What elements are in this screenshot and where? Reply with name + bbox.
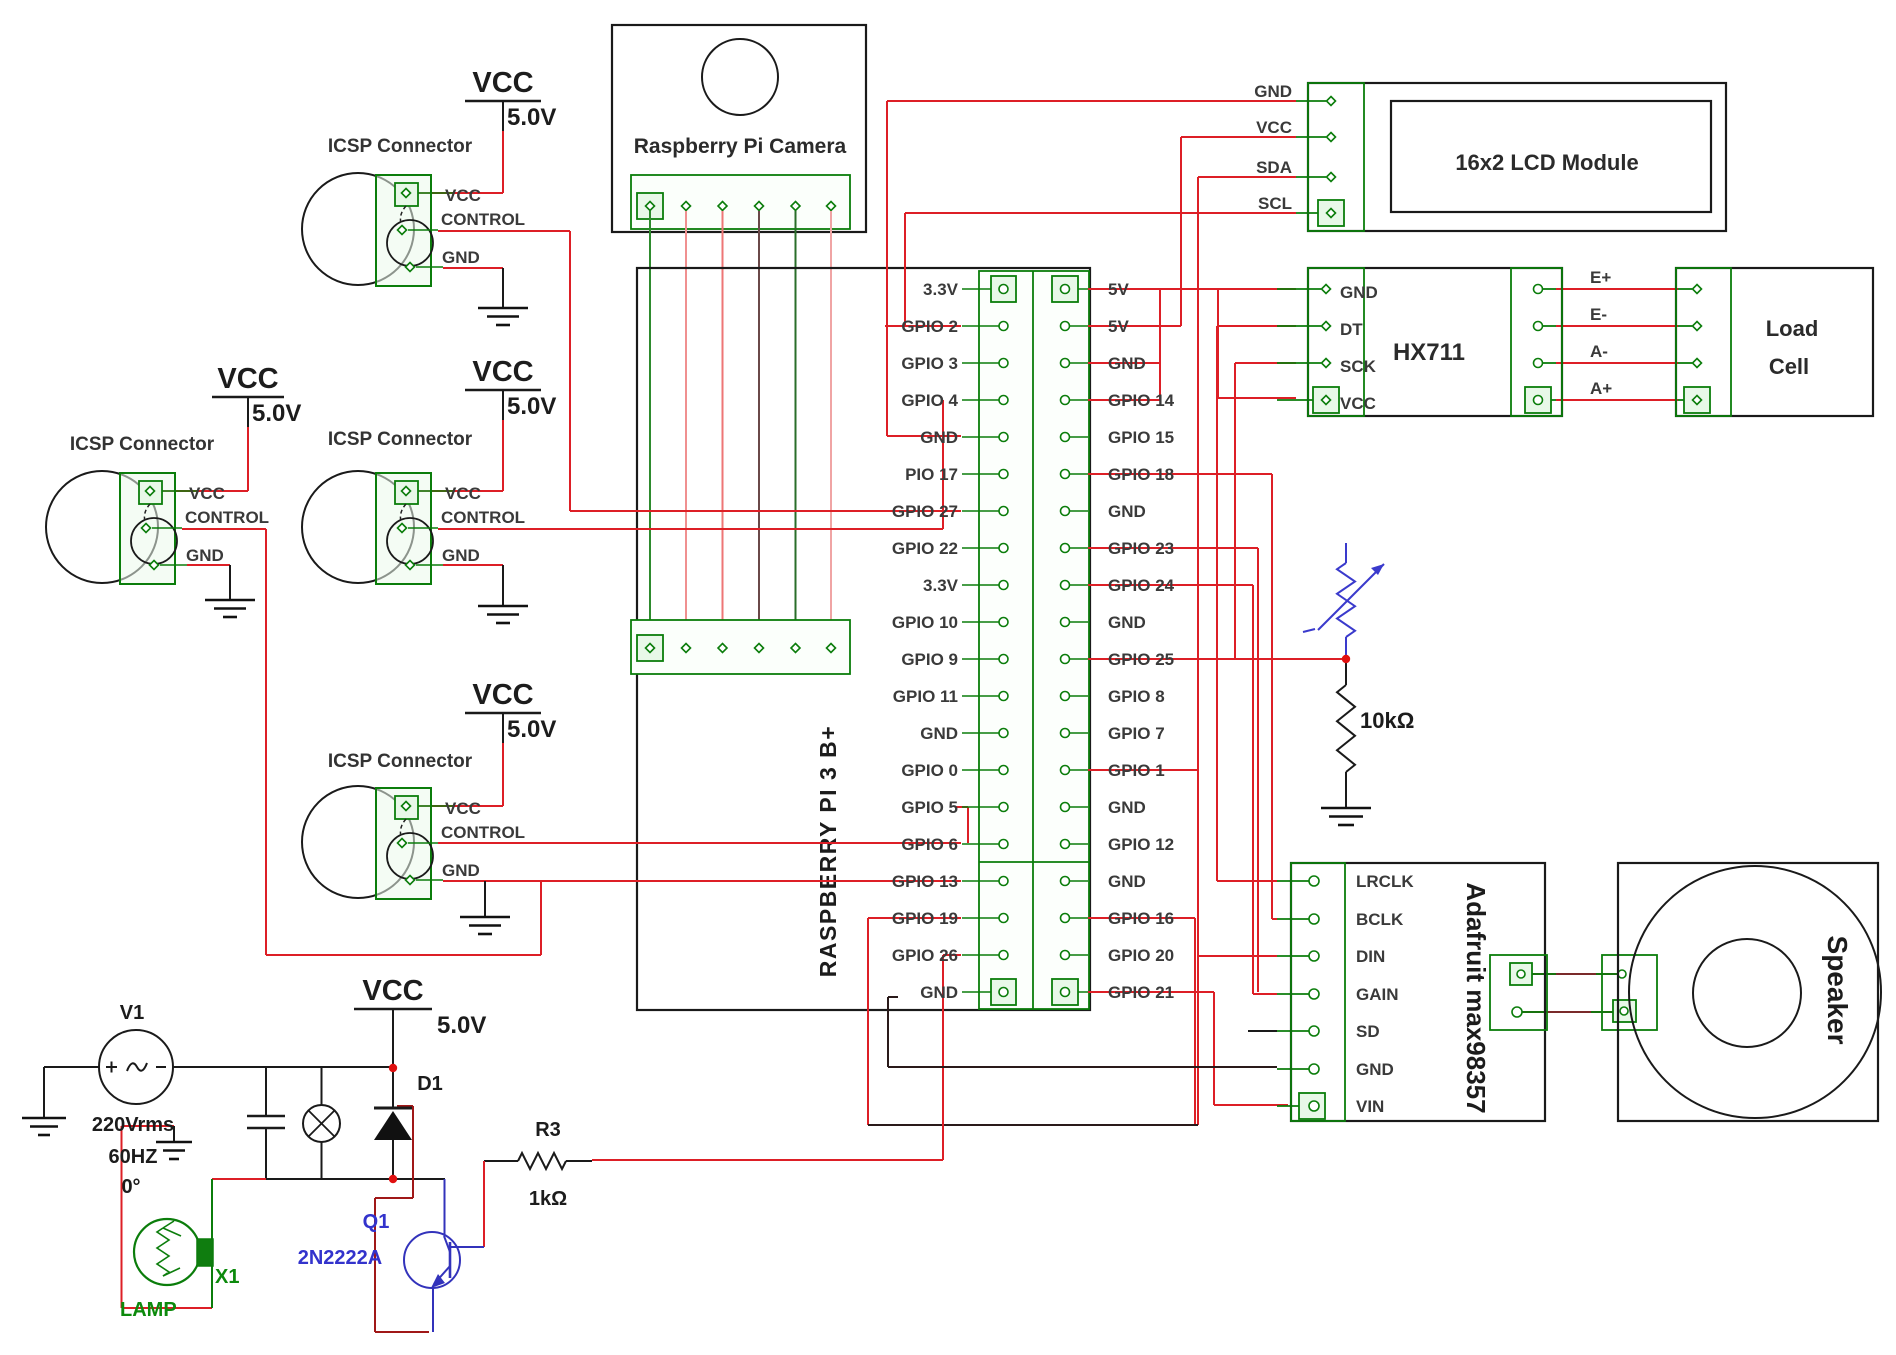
amp out+ wire (1532, 973, 1618, 975)
svg-text:GPIO 18: GPIO 18 (1108, 465, 1174, 484)
svg-text:BCLK: BCLK (1356, 910, 1404, 929)
servo2 VCC wire (502, 131, 504, 193)
LCD pin SDA (1327, 173, 1336, 182)
Load Cell body (1676, 268, 1873, 416)
HX711 right pin E- (1534, 322, 1543, 331)
amp SD stub (1248, 1030, 1277, 1032)
wire GPIO 2 row (885, 325, 961, 327)
HX711 pin stub y363 (1277, 362, 1321, 364)
GPIO header left stub row 4 (962, 399, 999, 401)
wire LCD SDA (1198, 176, 1296, 178)
LCD pin SCL (1327, 209, 1336, 218)
svg-text:VCC: VCC (472, 356, 533, 388)
svg-text:SD: SD (1356, 1022, 1380, 1041)
LCD connector strip (1308, 83, 1364, 231)
svg-text:5.0V: 5.0V (507, 393, 556, 420)
ground lamp (173, 1126, 175, 1141)
wire HX711 E- to load cell (1556, 325, 1678, 327)
16x2 LCD module body (1308, 83, 1726, 231)
speaker connector pin - circle (1620, 1007, 1628, 1015)
HX711 pin DT (1322, 322, 1331, 331)
relay coil (303, 1105, 340, 1142)
camera ribbon wire 4 (758, 211, 760, 643)
svg-text:ICSP Connector: ICSP Connector (328, 136, 473, 157)
speaker cone outer circle (1629, 866, 1881, 1118)
wire HX711 E+ to load cell (1556, 288, 1678, 290)
amp output pin + circle (1517, 970, 1525, 978)
svg-text:ICSP Connector: ICSP Connector (328, 751, 473, 772)
GPIO left pin row 19 (999, 951, 1008, 960)
svg-text:GND: GND (920, 428, 958, 447)
svg-text:V1: V1 (120, 1002, 144, 1024)
svg-text:5.0V: 5.0V (507, 104, 556, 131)
relay contact plates (247, 1115, 285, 1118)
amp pin stub y1031 (1277, 1030, 1309, 1032)
svg-text:SDA: SDA (1256, 158, 1292, 177)
GPIO pin40 square (1052, 979, 1078, 1005)
GPIO left pin row 8 (999, 544, 1008, 553)
svg-text:GND: GND (1108, 613, 1146, 632)
camera strip pin 3 (718, 202, 727, 211)
svg-text:D1: D1 (417, 1073, 443, 1095)
servo4 GND wire (443, 880, 541, 882)
svg-text:3.3V: 3.3V (923, 576, 959, 595)
amp pin DIN (1309, 951, 1319, 961)
GPIO left pin row 5 (999, 433, 1008, 442)
svg-text:1kΩ: 1kΩ (529, 1188, 567, 1210)
GPIO header right stub row 13 (1070, 732, 1088, 734)
LCD pin stub y213 (1296, 212, 1326, 214)
GPIO left pin row 15 (999, 803, 1008, 812)
GPIO left pin row 17 (999, 877, 1008, 886)
svg-text:ICSP Connector: ICSP Connector (70, 434, 215, 455)
GPIO right pin row 16 (1061, 840, 1070, 849)
E- stubs (1543, 325, 1556, 327)
wire V1 right to node (173, 1066, 393, 1068)
wire GPIO 26 to R3 (943, 954, 961, 956)
svg-text:E+: E+ (1590, 268, 1611, 287)
amp pin stub y956 (1277, 955, 1309, 957)
speaker connector pin + (1618, 970, 1626, 978)
wire DIN tap (1198, 955, 1277, 957)
svg-text:Raspberry Pi Camera: Raspberry Pi Camera (634, 135, 847, 158)
LCD pin VCC (1327, 133, 1336, 142)
amp out stubs (1532, 973, 1556, 975)
ground servo1 (229, 565, 231, 599)
GPIO left pin row 20 (999, 988, 1008, 997)
GPIO left pin row 2 (999, 322, 1008, 331)
wire GPIO 5 jog (955, 806, 968, 808)
E+ stubs (1543, 288, 1556, 290)
wire Pi GND to amp GND (888, 996, 898, 998)
svg-text:CONTROL: CONTROL (441, 823, 525, 842)
GPIO left pin row 10 (999, 618, 1008, 627)
HX711 VCC pin square (1313, 387, 1339, 413)
wire GPIO 27 to servo2 control (570, 510, 961, 512)
svg-text:VCC: VCC (445, 799, 481, 818)
servo3 VCC wire (502, 420, 504, 491)
camera strip pin 6 (827, 202, 836, 211)
camera ribbon wire 1 (649, 211, 651, 643)
svg-text:GPIO 0: GPIO 0 (901, 761, 958, 780)
svg-text:GND: GND (1254, 82, 1292, 101)
svg-text:GPIO 22: GPIO 22 (892, 539, 958, 558)
LCD pin stub y137 (1296, 136, 1326, 138)
svg-text:GPIO 25: GPIO 25 (1108, 650, 1174, 669)
svg-text:5.0V: 5.0V (252, 400, 301, 427)
GPIO right pin row 18 (1061, 914, 1070, 923)
svg-text:VCC: VCC (445, 186, 481, 205)
svg-text:R3: R3 (535, 1119, 561, 1141)
svg-text:2N2222A: 2N2222A (298, 1247, 383, 1269)
amp strip (1291, 863, 1345, 1121)
A+ stubs (1543, 399, 1556, 401)
wire VCC rail to node (392, 1009, 394, 1064)
svg-text:VCC: VCC (1256, 118, 1292, 137)
svg-text:GPIO 12: GPIO 12 (1108, 835, 1174, 854)
wire GPIO 19 net (868, 917, 961, 919)
svg-text:GPIO 9: GPIO 9 (901, 650, 958, 669)
svg-text:A-: A- (1590, 342, 1608, 361)
GPIO right pin row 13 (1061, 729, 1070, 738)
GPIO header divider (1032, 271, 1034, 1009)
camera strip pin 4 (755, 202, 764, 211)
svg-text:LRCLK: LRCLK (1356, 872, 1414, 891)
GPIO left pin row 11 (999, 655, 1008, 664)
GPIO header left stub row 3 (962, 362, 999, 364)
svg-text:Cell: Cell (1769, 354, 1809, 379)
Load Cell pin A+ (1693, 396, 1702, 405)
svg-text:VIN: VIN (1356, 1097, 1384, 1116)
Adafruit max98357 body (1291, 863, 1545, 1121)
Pi CSI strip pin 3 (718, 644, 727, 653)
LCD pin GND (1327, 97, 1336, 106)
svg-text:GND: GND (1108, 798, 1146, 817)
GPIO header right stub row 16 (1070, 843, 1088, 845)
wire emitter return path (397, 1105, 413, 1107)
V1 sine symbol (127, 1063, 147, 1071)
wire HX711 A+ to load cell (1556, 399, 1678, 401)
Load Cell A+ pin square (1684, 387, 1710, 413)
photoresistor (LDR) (1337, 563, 1355, 637)
V1 minus sign (156, 1066, 166, 1068)
svg-text:GPIO 3: GPIO 3 (901, 354, 958, 373)
speaker connector pin - square (1613, 1000, 1636, 1022)
wire V1 to relay and VCC node (44, 1066, 99, 1068)
LCD SCL pin square (1318, 200, 1344, 226)
Raspberry Pi Camera module body (612, 25, 866, 232)
GPIO right pin row 12 (1061, 692, 1070, 701)
Pi CSI strip pin 1 (646, 644, 655, 653)
lamp right terminal leads (211, 1179, 213, 1239)
LDR bottom lead (1345, 637, 1347, 659)
HX711 pin stub y289 (1277, 288, 1321, 290)
GPIO left pin row 3 (999, 359, 1008, 368)
wire HX711 A- to load cell (1556, 362, 1678, 364)
GPIO right pin row 14 (1061, 766, 1070, 775)
node VCC-relay junction (389, 1064, 397, 1072)
Pi CSI strip pin 5 (791, 644, 800, 653)
ground V1 (22, 1117, 66, 1120)
wire lamp left drop (121, 1126, 123, 1308)
svg-text:CONTROL: CONTROL (441, 508, 525, 527)
amp pin stub y994 (1277, 993, 1309, 995)
GPIO header right stub row 15 (1070, 806, 1088, 808)
Load Cell strip (1676, 268, 1731, 416)
VCC rail relay (354, 1008, 432, 1011)
HX711 pin VCC (1322, 396, 1331, 405)
GPIO header right stub row 5 (1070, 436, 1088, 438)
wire GND row5 (887, 435, 961, 437)
servo connector U1 (left) (46, 471, 158, 583)
svg-text:GND: GND (920, 724, 958, 743)
camera ribbon wire 3 (722, 211, 724, 643)
GPIO header right stub row 7 (1070, 510, 1088, 512)
svg-text:X1: X1 (215, 1266, 239, 1288)
VCC rail servo2 (465, 100, 541, 103)
GPIO header right stub row 8 (1070, 547, 1088, 549)
GPIO right pin row 2 (1061, 322, 1070, 331)
wire node to lamp branch (212, 1178, 266, 1180)
servo1 VCC wire (247, 427, 249, 491)
camera ribbon wire 2 (685, 211, 687, 643)
HX711 A+ pin square (1525, 387, 1551, 413)
amp pin VIN (1309, 1101, 1319, 1111)
GPIO right pin row 20 (1061, 988, 1070, 997)
servo2 GND wire (443, 267, 503, 269)
amp output pin - (1512, 1007, 1522, 1017)
Raspberry Pi 3 B+ body (637, 268, 1090, 1010)
relay coil top lead (321, 1067, 323, 1105)
10k bottom lead (1345, 772, 1347, 807)
svg-text:5.0V: 5.0V (437, 1012, 486, 1039)
svg-text:GPIO 2: GPIO 2 (901, 317, 958, 336)
node relay-diode junction (389, 1175, 397, 1183)
camera ribbon wire 5 (795, 211, 797, 643)
svg-text:VCC: VCC (217, 363, 278, 395)
transistor Q1 (404, 1232, 460, 1288)
GPIO header left stub row 18 (962, 917, 999, 919)
amp pin SD (1309, 1026, 1319, 1036)
svg-text:VCC: VCC (189, 484, 225, 503)
svg-text:GPIO 5: GPIO 5 (901, 798, 958, 817)
GPIO header section boundary (979, 861, 1089, 863)
GPIO right pin row 1 (1061, 285, 1070, 294)
GPIO left pin row 12 (999, 692, 1008, 701)
svg-text:GPIO 14: GPIO 14 (1108, 391, 1175, 410)
HX711 right pin A- (1534, 359, 1543, 368)
Pi CSI camera connector strip (631, 620, 850, 674)
wire HX711 DT (1217, 325, 1296, 327)
GPIO right pin row 3 (1061, 359, 1070, 368)
svg-text:16x2 LCD Module: 16x2 LCD Module (1455, 150, 1638, 175)
servo3 GND wire (443, 564, 503, 566)
GPIO header left stub row 5 (962, 436, 999, 438)
GPIO header right stub row 2 (1070, 325, 1088, 327)
svg-text:GND: GND (442, 546, 480, 565)
V1 plus sign (106, 1066, 117, 1068)
HX711 pin SCK (1322, 359, 1331, 368)
amp pin stub y919 (1277, 918, 1309, 920)
GPIO header right stub row 11 (1070, 658, 1088, 660)
svg-text:PIO 17: PIO 17 (905, 465, 958, 484)
wire GPIO 1 net (1088, 769, 1198, 771)
GPIO left pin row 13 (999, 729, 1008, 738)
ground servo2 (502, 268, 504, 307)
ground servo4 (484, 881, 486, 916)
GPIO header right stub row 18 (1070, 917, 1088, 919)
resistor R 10k (1337, 685, 1355, 772)
speaker connector (1602, 955, 1657, 1030)
servo connector U3 (middle) (302, 471, 414, 583)
GPIO header right stub row 3 (1070, 362, 1088, 364)
GPIO header right stub row 4 (1070, 399, 1088, 401)
diode D1 (374, 1107, 412, 1110)
svg-text:GND: GND (186, 546, 224, 565)
GPIO header right stub row 17 (1070, 880, 1088, 882)
svg-text:10kΩ: 10kΩ (1360, 708, 1414, 733)
svg-text:GPIO 1: GPIO 1 (1108, 761, 1165, 780)
GPIO right pin row 7 (1061, 507, 1070, 516)
svg-text:GND: GND (1108, 872, 1146, 891)
wire GPIO 13 to servo1 control (541, 880, 961, 882)
wire bottom node line (266, 1178, 445, 1180)
GPIO pin39 square (991, 979, 1016, 1005)
svg-text:GPIO 10: GPIO 10 (892, 613, 958, 632)
svg-text:GPIO 7: GPIO 7 (1108, 724, 1165, 743)
GPIO header right stub row 20 (1070, 991, 1088, 993)
camera lens circle (702, 39, 778, 115)
node GPIO25-LDR junction (1342, 655, 1350, 663)
GPIO header left stub row 1 (962, 288, 999, 290)
GPIO header left stub row 13 (962, 732, 999, 734)
svg-text:SCL: SCL (1258, 194, 1292, 213)
GPIO right pin row 17 (1061, 877, 1070, 886)
wire GPIO 18 to BCLK (1088, 473, 1272, 475)
servo connector U4 (bottom) (302, 786, 414, 898)
HX711 right pin A+ (1534, 396, 1543, 405)
GPIO header left stub row 11 (962, 658, 999, 660)
GPIO header left stub row 14 (962, 769, 999, 771)
svg-text:5V: 5V (1108, 280, 1129, 299)
GPIO header right stub row 1 (1070, 288, 1088, 290)
wire LCD SCL to GPIO 3 (905, 212, 1296, 214)
GPIO right pin row 5 (1061, 433, 1070, 442)
svg-text:DIN: DIN (1356, 947, 1385, 966)
svg-text:GPIO 13: GPIO 13 (892, 872, 958, 891)
GPIO left pin row 14 (999, 766, 1008, 775)
wire Pi GND pin6 to HX711 GND (1088, 362, 1160, 364)
VCC rail servo4 (465, 712, 541, 715)
servo1 CONTROL stub (182, 528, 266, 530)
svg-text:GND: GND (1108, 354, 1146, 373)
GPIO header right stub row 6 (1070, 473, 1088, 475)
amp pin GND (1309, 1064, 1319, 1074)
HX711 right pin E+ (1534, 285, 1543, 294)
wire bottom crossover (868, 1124, 1198, 1126)
GPIO pin2 square (1052, 276, 1078, 302)
GPIO right pin row 15 (1061, 803, 1070, 812)
amp pin stub y1106 (1277, 1105, 1309, 1107)
GPIO left pin row 9 (999, 581, 1008, 590)
svg-text:GPIO 26: GPIO 26 (892, 946, 958, 965)
LCD pin stub y101 (1296, 100, 1326, 102)
HX711 pin GND (1322, 285, 1331, 294)
GPIO right pin row 11 (1061, 655, 1070, 664)
svg-text:GPIO 23: GPIO 23 (1108, 539, 1174, 558)
HX711 left strip (1308, 268, 1364, 416)
AC source V1 (99, 1030, 173, 1104)
GPIO right pin row 9 (1061, 581, 1070, 590)
svg-text:GND: GND (442, 248, 480, 267)
GPIO header left stub row 15 (962, 806, 999, 808)
R3 left lead (484, 1160, 518, 1162)
amp VIN pin square (1299, 1093, 1325, 1119)
svg-text:A+: A+ (1590, 379, 1612, 398)
svg-text:DT: DT (1340, 320, 1363, 339)
wire GPIO 24 to GAIN (1088, 584, 1253, 586)
VCC rail servo1 (212, 396, 284, 399)
svg-text:GPIO 21: GPIO 21 (1108, 983, 1174, 1002)
svg-text:CONTROL: CONTROL (185, 508, 269, 527)
resistor R3 (518, 1153, 566, 1169)
svg-text:GPIO 6: GPIO 6 (901, 835, 958, 854)
A- stubs (1543, 362, 1556, 364)
svg-text:ICSP Connector: ICSP Connector (328, 429, 473, 450)
svg-text:GPIO 27: GPIO 27 (892, 502, 958, 521)
wire Pi 5V pin1 to HX711 (1088, 288, 1296, 290)
relay coil bottom lead (321, 1142, 323, 1179)
amp pin GAIN (1309, 989, 1319, 999)
svg-text:GAIN: GAIN (1356, 985, 1399, 1004)
amp pin stub y1069 (1277, 1068, 1309, 1070)
wire GPIO 6 to servo4 control (438, 842, 961, 844)
wire GPIO 4 to servo3 control (438, 528, 943, 530)
GPIO right pin row 4 (1061, 396, 1070, 405)
svg-text:220Vrms: 220Vrms (92, 1114, 174, 1136)
lamp X1 (134, 1219, 200, 1285)
amp pin BCLK (1309, 914, 1319, 924)
amp output connector (1490, 955, 1547, 1030)
relay contact top lead (265, 1067, 267, 1116)
GPIO header left stub row 20 (962, 991, 999, 993)
svg-text:VCC: VCC (362, 975, 423, 1007)
GPIO header right stub row 19 (1070, 954, 1088, 956)
svg-text:VCC: VCC (472, 67, 533, 99)
wire GPIO 23 net (1088, 547, 1258, 549)
HX711 pin stub y326 (1277, 325, 1321, 327)
svg-text:VCC: VCC (445, 484, 481, 503)
R3 right lead (566, 1160, 592, 1162)
amp pin stub y881 (1277, 880, 1309, 882)
svg-text:GND: GND (1108, 502, 1146, 521)
camera ribbon wire 6 (830, 211, 832, 643)
svg-text:GND: GND (920, 983, 958, 1002)
GPIO header left stub row 16 (962, 843, 999, 845)
svg-text:LAMP: LAMP (120, 1299, 177, 1321)
Speaker body (1618, 863, 1878, 1121)
svg-text:5V: 5V (1108, 317, 1129, 336)
GPIO header right stub row 14 (1070, 769, 1088, 771)
GPIO right pin row 10 (1061, 618, 1070, 627)
svg-text:0°: 0° (121, 1176, 140, 1198)
svg-text:Speaker: Speaker (1822, 936, 1853, 1045)
GPIO right pin row 8 (1061, 544, 1070, 553)
GPIO header left stub row 9 (962, 584, 999, 586)
GPIO left pin row 1 (999, 285, 1008, 294)
GPIO header left stub row 7 (962, 510, 999, 512)
servo connector U2 (top) (302, 173, 414, 285)
